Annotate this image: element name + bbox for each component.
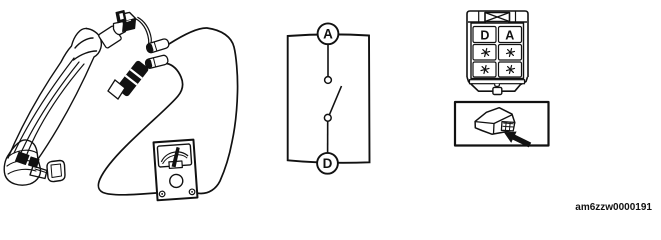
svg-text:am6zzw0000191: am6zzw0000191	[575, 202, 652, 213]
svg-text:A: A	[323, 27, 333, 42]
svg-text:A: A	[505, 29, 514, 43]
svg-text:D: D	[323, 156, 333, 171]
svg-text:D: D	[480, 29, 489, 43]
